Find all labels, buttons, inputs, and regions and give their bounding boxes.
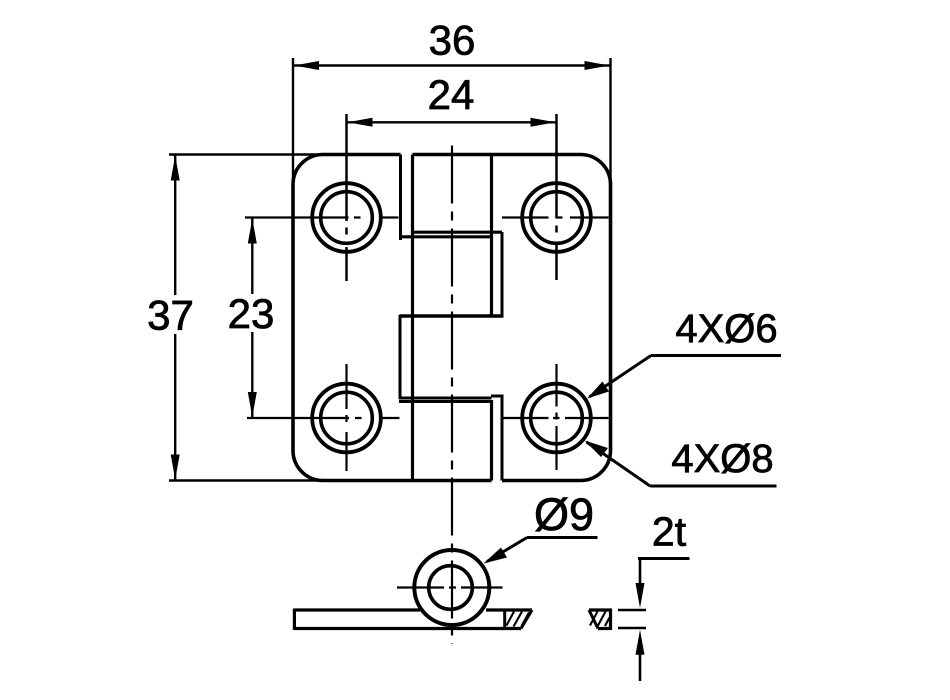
svg-text:4XØ6: 4XØ6 [675, 307, 777, 351]
dimension 23: bottom arrow [248, 392, 257, 417]
hole top-right outer circle [522, 183, 591, 252]
dimension 37: top arrow [171, 156, 180, 181]
centerline vertical, hole top-left (also 24-dim extension) [345, 114, 348, 281]
label 4XØ6 leader diagonal [590, 356, 652, 397]
dimension 37: top extension line [169, 153, 330, 155]
side view: countersunk hole right wall [589, 610, 598, 629]
centerline vertical, hole bottom-left [345, 364, 347, 471]
dimension 2t: upper arrow (down) [636, 583, 645, 608]
svg-text:2t: 2t [652, 509, 687, 555]
label 4XØ6 leader shelf [651, 354, 781, 357]
side view: hatching left group [507, 612, 530, 627]
hole bottom-right inner circle [531, 392, 583, 444]
hole bottom-left outer circle [312, 384, 381, 453]
knuckle joint horizontal step H1 [413, 231, 503, 234]
hole top-right inner circle [531, 192, 583, 244]
hole bottom-right outer circle [522, 384, 591, 453]
svg-text:36: 36 [429, 17, 476, 64]
dimension 24: right arrow [531, 118, 556, 127]
dimension 36: dimension line [293, 64, 611, 66]
knuckle joint vertical: left slot edge upper [399, 155, 402, 241]
dimension 36: left extension line [292, 58, 294, 190]
knuckle joint vertical: right slot edge lower [501, 397, 504, 481]
centerline horizontal, hole bottom-left [247, 417, 400, 419]
label 4XØ8 leader arrow [585, 441, 609, 458]
hole bottom-left inner circle [321, 392, 373, 444]
centerline vertical, hole top-right (also 24-dim extension) [555, 114, 558, 280]
dimension 2t: lower arrow (up) [636, 630, 645, 655]
dimension 37: bottom extension line [169, 479, 330, 481]
centerline vertical, hole bottom-right [555, 364, 557, 470]
dimension 2t: top tick [618, 609, 646, 612]
dimension 24: dimension line [347, 121, 557, 123]
dimension 2t: upper leader vertical [639, 559, 642, 586]
label Ø9 leader arrow [484, 548, 508, 564]
dimension 2t: shelf line [638, 557, 690, 560]
svg-text:Ø9: Ø9 [534, 489, 594, 540]
side view: plate right end [609, 609, 612, 631]
centerline horizontal, hole top-left [245, 216, 399, 218]
hinge body outline (top view, right leaf + top edge) [413, 155, 611, 481]
dimension 23: top arrow [248, 219, 257, 244]
knuckle joint vertical: barrel right edge lower [490, 400, 493, 481]
svg-text:24: 24 [428, 71, 475, 118]
side view: plate top edge segments [294, 608, 610, 611]
hole top-left outer circle [312, 183, 381, 252]
main pin centerline (vertical dash-dot) [451, 146, 453, 645]
centerline horizontal, hole bottom-right [504, 417, 609, 419]
dimension 37: bottom arrow [171, 455, 180, 480]
centerline horizontal, hole top-right [502, 216, 609, 218]
dimension 24: left arrow [348, 118, 373, 127]
side view: section break line [503, 610, 506, 629]
knuckle joint vertical: left slot edge middle [399, 315, 402, 399]
side view: hatching right group [590, 612, 610, 627]
knuckle joint horizontal step H4a [491, 395, 504, 398]
hole top-left inner circle [321, 192, 373, 244]
side view: knuckle outer circle [414, 550, 489, 625]
svg-text:23: 23 [228, 290, 275, 337]
knuckle joint horizontal step H2 [401, 235, 492, 238]
label Ø9 leader diagonal [487, 538, 527, 562]
side view: plate bottom edge segments [294, 627, 610, 630]
dimension 37: dimension line (broken for text) [174, 155, 176, 481]
dimension 2t: lower leader vertical [639, 652, 642, 681]
knuckle joint vertical: right slot edge upper [501, 232, 504, 317]
dimension 2t: bottom tick [618, 627, 646, 630]
dimension 36: left arrow [294, 61, 319, 70]
label 4XØ8 leader diagonal [587, 442, 651, 486]
hinge body outline (top view, left leaf + bottom edge) [293, 155, 492, 481]
dimension 23: dimension line (broken for text) [251, 218, 253, 419]
knuckle joint vertical: barrel left edge full height [411, 155, 414, 481]
knuckle joint horizontal step H4c [399, 400, 492, 403]
label 4XØ6 leader arrow [587, 382, 609, 399]
svg-text:4XØ8: 4XØ8 [671, 437, 773, 481]
knuckle joint horizontal step H3 (middle) [400, 314, 504, 318]
knuckle joint vertical: barrel right edge upper [490, 155, 493, 317]
side view: countersunk hole left wall [521, 610, 532, 629]
side view: pin hole inner circle [429, 566, 473, 610]
side view: knuckle horizontal centerline [397, 586, 503, 588]
dimension 36: right arrow [585, 61, 610, 70]
dimension 36: right extension line [609, 58, 611, 190]
side view: plate left end [293, 609, 296, 631]
label 4XØ8 leader shelf [650, 485, 777, 488]
knuckle joint horizontal step H4b [399, 397, 492, 400]
svg-text:37: 37 [147, 292, 194, 339]
label Ø9 leader shelf [527, 536, 598, 539]
